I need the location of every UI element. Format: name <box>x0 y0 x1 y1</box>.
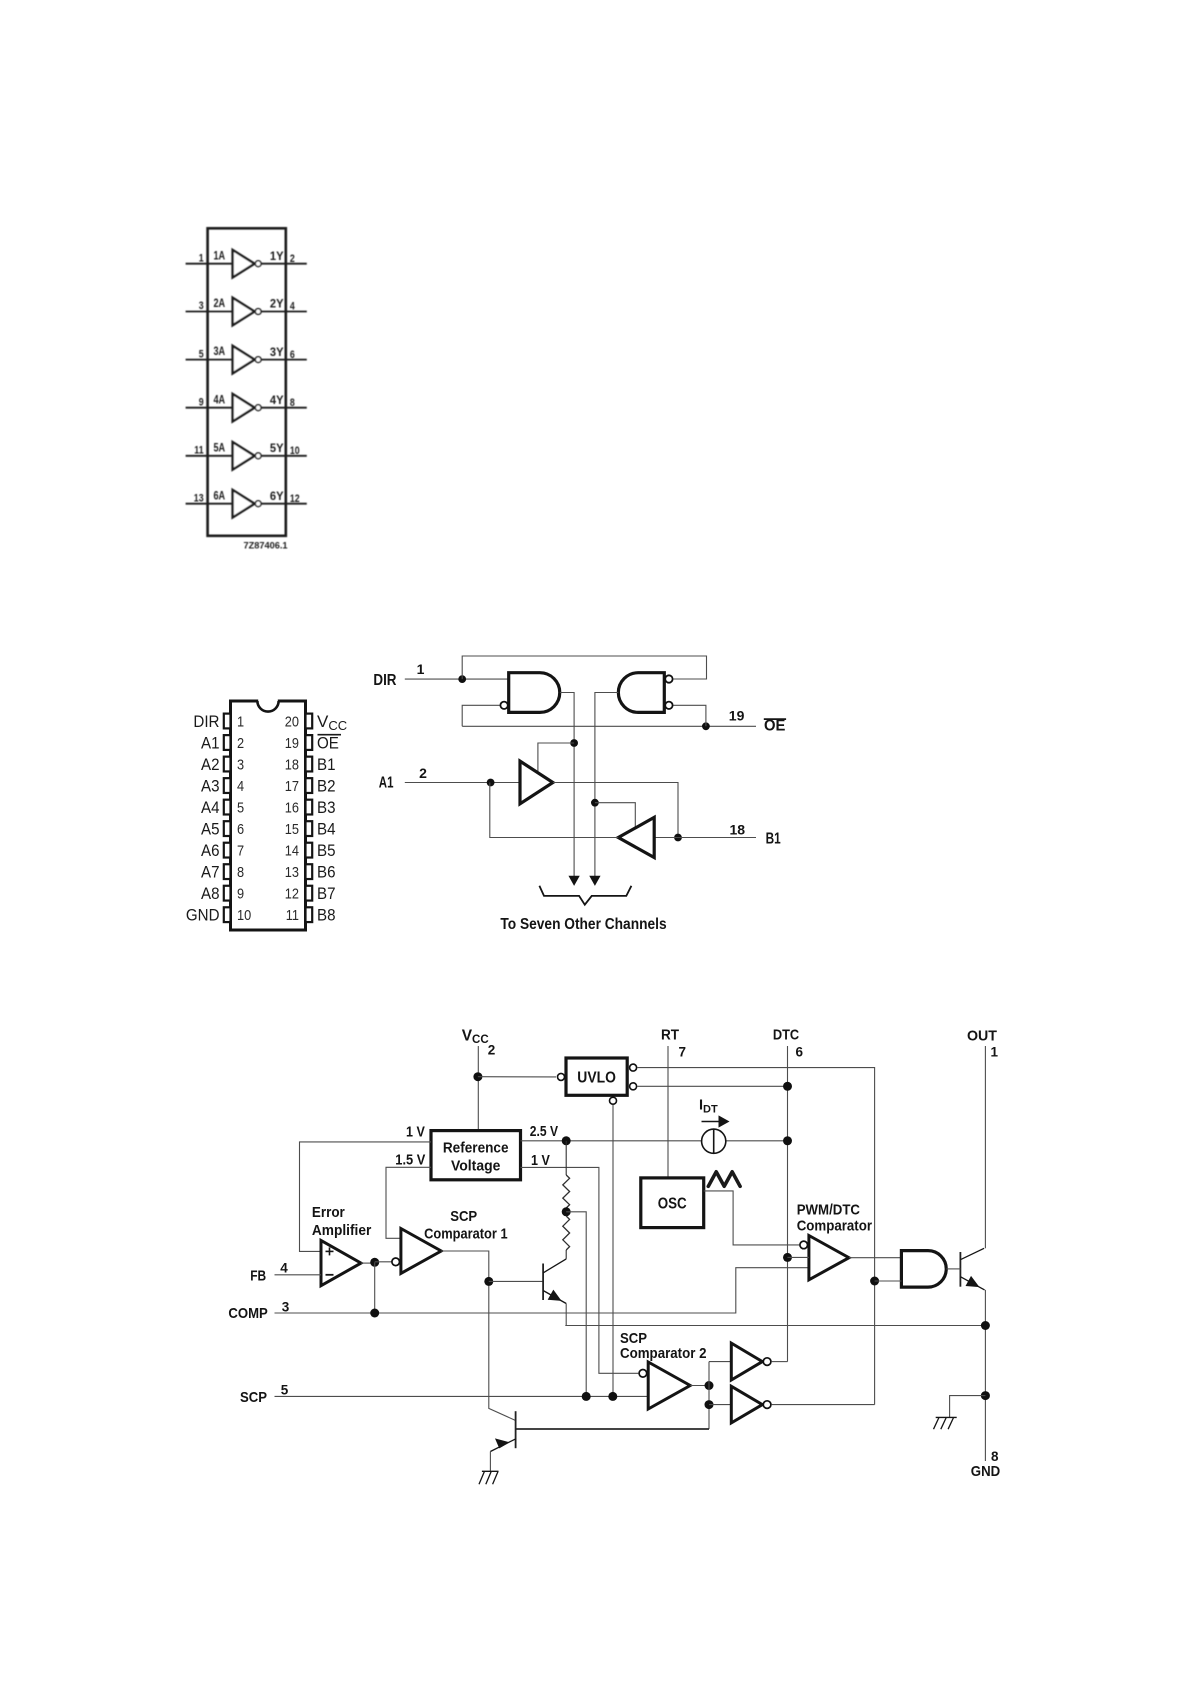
svg-text:DTC: DTC <box>773 1026 799 1043</box>
svg-text:6: 6 <box>237 821 244 838</box>
svg-text:Voltage: Voltage <box>451 1157 500 1174</box>
svg-text:10: 10 <box>237 907 251 924</box>
svg-text:1Y: 1Y <box>270 249 284 263</box>
svg-text:Error: Error <box>312 1204 345 1221</box>
svg-text:1: 1 <box>417 661 425 677</box>
svg-text:19: 19 <box>285 735 299 752</box>
svg-text:3: 3 <box>237 756 244 773</box>
svg-text:COMP: COMP <box>228 1305 267 1322</box>
svg-text:11: 11 <box>286 907 299 924</box>
svg-text:2Y: 2Y <box>270 297 284 311</box>
svg-text:FB: FB <box>250 1267 266 1284</box>
svg-text:SCP: SCP <box>240 1389 267 1406</box>
svg-text:16: 16 <box>285 799 299 816</box>
svg-text:4: 4 <box>290 301 296 313</box>
svg-text:DIR: DIR <box>373 672 396 689</box>
svg-text:A7: A7 <box>201 863 220 882</box>
svg-text:GND: GND <box>971 1463 1001 1480</box>
svg-text:2: 2 <box>488 1043 496 1058</box>
svg-text:12: 12 <box>290 493 300 505</box>
svg-text:6: 6 <box>290 349 295 361</box>
svg-text:SCP: SCP <box>450 1208 477 1225</box>
svg-text:A2: A2 <box>201 755 220 774</box>
svg-text:2: 2 <box>237 735 244 752</box>
svg-text:OSC: OSC <box>658 1196 687 1213</box>
svg-text:B1: B1 <box>317 755 336 774</box>
svg-text:1A: 1A <box>214 248 226 262</box>
svg-text:A6: A6 <box>201 841 220 860</box>
svg-text:3: 3 <box>282 1299 290 1314</box>
svg-text:8: 8 <box>290 397 295 409</box>
svg-text:1.5 V: 1.5 V <box>395 1152 425 1169</box>
svg-text:A8: A8 <box>201 884 220 903</box>
svg-text:2.5 V: 2.5 V <box>530 1123 558 1140</box>
svg-text:2A: 2A <box>214 296 226 310</box>
svg-text:PWM/DTC: PWM/DTC <box>797 1202 860 1219</box>
svg-text:B1: B1 <box>766 831 781 848</box>
svg-text:1 V: 1 V <box>406 1123 425 1140</box>
svg-text:1 V: 1 V <box>531 1152 550 1169</box>
svg-text:18: 18 <box>730 821 746 837</box>
svg-text:8: 8 <box>991 1449 999 1464</box>
svg-text:OE: OE <box>317 734 339 753</box>
svg-text:6Y: 6Y <box>270 489 284 503</box>
svg-text:5Y: 5Y <box>270 441 284 455</box>
svg-text:1: 1 <box>199 252 204 264</box>
svg-text:A1: A1 <box>201 734 220 753</box>
svg-text:Comparator: Comparator <box>797 1217 872 1234</box>
svg-text:B8: B8 <box>317 906 336 925</box>
svg-text:Amplifier: Amplifier <box>312 1222 372 1239</box>
svg-text:3A: 3A <box>214 344 226 358</box>
svg-text:2: 2 <box>290 253 295 265</box>
svg-text:13: 13 <box>285 864 299 881</box>
svg-text:Reference: Reference <box>443 1139 509 1156</box>
svg-text:A3: A3 <box>201 777 220 796</box>
svg-text:12: 12 <box>285 886 299 903</box>
svg-text:7: 7 <box>237 843 244 860</box>
svg-text:6: 6 <box>796 1044 804 1059</box>
svg-text:To Seven Other Channels: To Seven Other Channels <box>500 916 666 933</box>
svg-text:9: 9 <box>199 396 204 408</box>
svg-text:5: 5 <box>199 348 204 360</box>
svg-text:7Z87406.1: 7Z87406.1 <box>244 541 289 552</box>
svg-text:10: 10 <box>290 445 300 457</box>
svg-text:1: 1 <box>991 1044 999 1059</box>
svg-text:B5: B5 <box>317 841 336 860</box>
svg-text:9: 9 <box>237 886 244 903</box>
svg-text:A1: A1 <box>379 775 394 792</box>
svg-text:18: 18 <box>285 756 299 773</box>
svg-text:2: 2 <box>419 765 427 781</box>
svg-text:3: 3 <box>199 300 204 312</box>
svg-text:UVLO: UVLO <box>577 1070 616 1087</box>
svg-text:B6: B6 <box>317 863 336 882</box>
svg-text:11: 11 <box>194 445 203 457</box>
svg-text:14: 14 <box>285 843 299 860</box>
svg-text:OUT: OUT <box>967 1027 997 1044</box>
svg-text:6A: 6A <box>214 488 226 502</box>
svg-text:17: 17 <box>285 778 299 795</box>
svg-text:4: 4 <box>237 778 244 795</box>
svg-text:RT: RT <box>661 1026 679 1043</box>
svg-text:4: 4 <box>280 1261 288 1276</box>
svg-text:DIR: DIR <box>193 712 219 731</box>
svg-text:7: 7 <box>679 1044 687 1059</box>
svg-text:8: 8 <box>237 864 244 881</box>
svg-text:15: 15 <box>285 821 299 838</box>
svg-text:B7: B7 <box>317 884 336 903</box>
svg-text:GND: GND <box>186 906 220 925</box>
svg-text:Comparator 1: Comparator 1 <box>424 1225 508 1242</box>
svg-text:B2: B2 <box>317 777 336 796</box>
svg-text:5: 5 <box>281 1382 289 1397</box>
svg-text:A5: A5 <box>201 820 220 839</box>
svg-text:4Y: 4Y <box>270 393 284 407</box>
svg-text:19: 19 <box>729 708 745 724</box>
svg-text:5: 5 <box>237 799 244 816</box>
svg-text:B3: B3 <box>317 798 336 817</box>
svg-text:20: 20 <box>285 713 299 730</box>
svg-text:Comparator 2: Comparator 2 <box>620 1345 707 1362</box>
svg-text:4A: 4A <box>214 392 226 406</box>
svg-text:1: 1 <box>237 713 244 730</box>
svg-text:13: 13 <box>194 492 204 504</box>
svg-text:3Y: 3Y <box>270 345 284 359</box>
svg-text:5A: 5A <box>214 440 226 454</box>
svg-text:A4: A4 <box>201 798 220 817</box>
svg-text:B4: B4 <box>317 820 336 839</box>
